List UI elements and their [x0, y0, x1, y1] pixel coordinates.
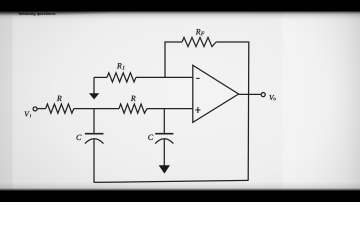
capacitor C2 (straight top plate)	[155, 133, 173, 135]
label C (right capacitor)	[148, 135, 153, 140]
resistor R (left, series input)	[46, 104, 74, 113]
label R (second resistor value)	[131, 96, 136, 101]
wire C1 bottom lead down to bottom rail	[93, 139, 95, 182]
wire R1 left lead (from node A rising to R1)	[93, 77, 95, 93]
wire resistor R to node A	[74, 108, 119, 110]
wire Vi terminal to resistor R (left)	[37, 108, 45, 110]
op-amp noninverting pin label +	[195, 107, 200, 113]
capacitor C2 (curved bottom plate)	[155, 139, 173, 144]
capacitor C1 (straight top plate)	[85, 133, 104, 135]
wire inverting node up to RF	[165, 42, 182, 77]
capacitor C2 top lead from + input node	[163, 109, 165, 133]
label R (left resistor value)	[57, 96, 62, 101]
resistor R (second, series)	[119, 104, 147, 113]
resistor RF (feedback)	[182, 37, 216, 46]
wire R1 to op-amp - input	[136, 76, 193, 78]
capacitor C1 top lead from node A	[93, 109, 95, 133]
label Vi	[25, 111, 31, 117]
capacitor C1 (curved bottom plate)	[85, 139, 104, 144]
label Vo	[269, 95, 275, 100]
ground (arrow symbol below C2)	[159, 165, 170, 173]
label C (left capacitor)	[77, 135, 82, 140]
op-amp inverting pin label -	[196, 77, 199, 79]
bottom rail wire (C1 to right-side wire)	[94, 180, 248, 182]
wire second R to op-amp + input	[147, 108, 193, 110]
terminal Vi (input open circle)	[33, 107, 37, 111]
terminal Vo (output open circle)	[261, 93, 265, 97]
op-amp U1	[193, 65, 239, 122]
wire R1 horizontal lead	[94, 76, 107, 78]
label R1	[117, 63, 125, 69]
wire RF right end down right side to output node and bottom rail	[216, 42, 249, 181]
wire C2 bottom lead down to ground arrow	[163, 139, 165, 165]
label RF	[196, 29, 205, 35]
wire op-amp output to terminal Vo	[239, 93, 261, 95]
resistor R1 (feedback to inverting input path)	[107, 73, 136, 82]
arrowhead pointing down into node A	[89, 93, 99, 99]
